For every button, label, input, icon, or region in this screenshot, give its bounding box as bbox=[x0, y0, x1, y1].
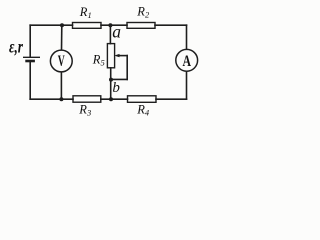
junction dot wiper tap at node b bbox=[109, 78, 113, 82]
wire top-left segment bbox=[30, 24, 72, 26]
resistor R3 bbox=[73, 96, 101, 102]
voltmeter circle V bbox=[50, 50, 72, 72]
svg-text:ε,r: ε,r bbox=[9, 37, 23, 57]
wire voltmeter bottom lead bbox=[60, 72, 62, 99]
junction dot at top voltmeter branch bbox=[60, 23, 64, 27]
wire bottom-middle segment bbox=[101, 98, 128, 100]
ammeter circle A bbox=[176, 49, 198, 71]
svg-text:A: A bbox=[182, 53, 191, 70]
junction dot bottom voltmeter branch bbox=[59, 97, 63, 101]
svg-text:b: b bbox=[112, 80, 120, 96]
junction dot bottom R5 branch bbox=[109, 97, 113, 101]
svg-text:R5: R5 bbox=[92, 52, 105, 67]
wire wiper tap horizontal lower bbox=[111, 78, 127, 80]
wire node a to R5 top bbox=[109, 25, 111, 43]
wire R5 bottom to bottom wire bbox=[110, 68, 112, 99]
resistor R2 bbox=[127, 23, 155, 29]
wire bottom-right segment bbox=[156, 98, 187, 100]
svg-text:R1: R1 bbox=[79, 5, 92, 20]
battery cell short thick plate bbox=[25, 60, 35, 63]
wire bottom-left segment bbox=[30, 98, 73, 100]
svg-text:V: V bbox=[58, 53, 65, 70]
wiper arrowhead of R5 bbox=[114, 54, 119, 57]
svg-text:R2: R2 bbox=[136, 5, 150, 20]
wire top-middle segment bbox=[101, 24, 127, 26]
wire right lower segment bbox=[186, 71, 188, 99]
svg-text:R4: R4 bbox=[136, 103, 150, 118]
wire wiper tap vertical bbox=[126, 56, 128, 80]
svg-text:R3: R3 bbox=[78, 102, 91, 117]
wire voltmeter top lead bbox=[61, 25, 63, 50]
battery cell long plate bbox=[23, 56, 40, 58]
wire right upper segment bbox=[186, 25, 188, 49]
rheostat R5 body bbox=[107, 44, 114, 68]
resistor R1 bbox=[73, 23, 102, 29]
svg-text:a: a bbox=[112, 22, 121, 42]
wire left lower segment bbox=[29, 62, 31, 99]
wire left upper segment bbox=[29, 25, 31, 57]
wire top-right segment bbox=[155, 24, 187, 26]
junction dot node a bbox=[108, 23, 112, 27]
wire wiper tap horizontal upper bbox=[118, 55, 128, 57]
resistor R4 bbox=[128, 96, 157, 103]
